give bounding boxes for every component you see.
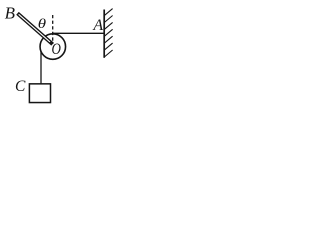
wall	[103, 10, 105, 58]
dashed vertical reference line	[52, 15, 54, 44]
wall hatching	[104, 9, 112, 57]
svg-text:O: O	[52, 41, 62, 59]
svg-text:A: A	[92, 17, 103, 34]
block C	[29, 84, 50, 103]
string to block C	[40, 46, 42, 84]
svg-text:C: C	[15, 78, 26, 95]
rope AO (horizontal string to wall)	[53, 32, 104, 34]
svg-text:θ: θ	[38, 16, 47, 31]
rod BO (double-line rod)	[18, 13, 53, 44]
svg-text:B: B	[5, 4, 16, 23]
pulley circle O	[40, 34, 66, 60]
